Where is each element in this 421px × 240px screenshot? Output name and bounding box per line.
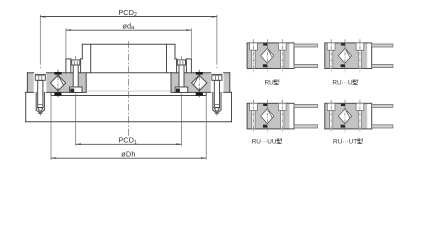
- outer bolt right: [212, 74, 222, 111]
- roller right diamond: [192, 75, 207, 91]
- svg-text:RU: RU: [265, 80, 275, 87]
- roller (crossed roller) left diamond: [50, 75, 65, 91]
- icon RU-UU (bottom-left): [247, 100, 317, 133]
- svg-text:RU···UU: RU···UU: [252, 139, 277, 146]
- icon RU-U (top-right): [325, 39, 393, 72]
- bolt centerlines / dimension extension lines: [40, 15, 217, 160]
- table (upper housing) outline: [66, 44, 191, 73]
- roller centerline ticks: [58, 70, 199, 97]
- faint under-table edge line: [86, 90, 171, 92]
- dimension øda: [66, 29, 191, 31]
- base (lower housing) outline: [26, 92, 232, 121]
- outer-ring bolt counterbore hole left (white cutout): [34, 73, 47, 93]
- outer-ring bolt counterbore hole right (white cutout): [211, 73, 224, 93]
- svg-text:RU···U: RU···U: [332, 80, 353, 87]
- seal bars (black) at ring seams: [54, 72, 203, 96]
- ring cross-section band (hatched): [27, 73, 86, 93]
- svg-text:øDh: øDh: [121, 149, 136, 158]
- dimension øDh (bottom): [51, 157, 206, 159]
- icon RU-UT (bottom-right): [325, 100, 393, 133]
- inner bolt right: [175, 60, 188, 93]
- inner bolt left: [70, 60, 83, 93]
- main axis centerline: [128, 41, 130, 136]
- icon labels: [252, 79, 363, 145]
- ring top and bottom edges: [27, 73, 229, 93]
- dimension PCD2 (top): [40, 16, 217, 18]
- dimension PCD1 (bottom): [76, 143, 182, 145]
- outer bolt left (socket head cap screw): [35, 74, 45, 111]
- icon RU (top-left): [247, 39, 317, 72]
- svg-text:RU···UT: RU···UT: [333, 139, 357, 146]
- base pocket (housing bore øDh): [50, 92, 52, 95]
- tapped holes in base for outer bolts: [36, 92, 44, 110]
